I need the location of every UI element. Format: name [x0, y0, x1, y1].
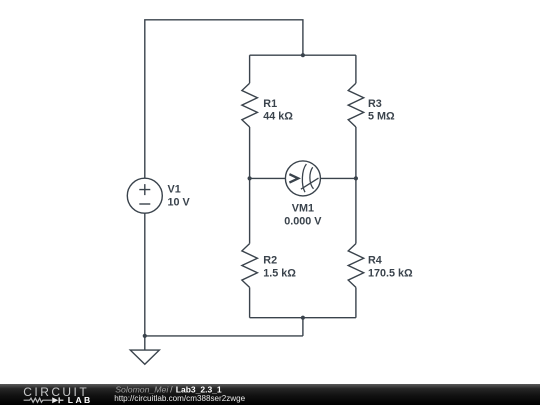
wire bridge top rail [250, 54, 356, 56]
resistor R4 [348, 244, 364, 288]
svg-text:/: / [170, 385, 173, 395]
wire R3 top stub [355, 55, 357, 83]
VM1 pointer chevron [289, 174, 298, 182]
svg-text:44 kΩ: 44 kΩ [263, 111, 293, 123]
node B right mid [354, 176, 358, 180]
VM1 needle [301, 178, 319, 189]
wire bottom return to V1 [145, 335, 303, 337]
svg-text:Solomon_Mei: Solomon_Mei [115, 385, 169, 395]
svg-text:R2: R2 [263, 255, 277, 267]
wire R4 bottom to bridge bottom [355, 287, 357, 317]
svg-text:0.000 V: 0.000 V [284, 216, 322, 228]
voltage source V1 circle [127, 178, 162, 213]
voltmeter VM1 circle [285, 161, 320, 196]
wire R1 top stub [249, 55, 251, 83]
wire R1 bottom through node A to R2 top [249, 127, 251, 244]
ground stub [144, 336, 146, 350]
wire V1 bottom [144, 213, 146, 336]
V1 plus sign [139, 184, 150, 195]
wire bottom tap stub [302, 318, 304, 336]
svg-text:R4: R4 [368, 255, 382, 267]
wire bridge bottom rail [250, 317, 356, 319]
wire VM1 right lead [320, 177, 356, 179]
node junction bridge top [301, 53, 305, 57]
logo resistor zigzag and diode [24, 398, 52, 402]
resistor R2 [242, 244, 258, 288]
ground symbol [130, 350, 159, 364]
wire R2 bottom to bridge bottom [249, 287, 251, 317]
svg-text:VM1: VM1 [292, 203, 314, 215]
svg-text:http://circuitlab.com/cm388ser: http://circuitlab.com/cm388ser2zwge [114, 394, 245, 403]
wire R3 bottom through node B to R4 top [355, 127, 357, 244]
svg-text:1.5 kΩ: 1.5 kΩ [263, 267, 296, 279]
resistor R1 [242, 83, 258, 127]
VM1 scale arc 1 [302, 164, 306, 192]
wire VM1 left lead [250, 177, 286, 179]
VM1 scale arc 2 [310, 167, 314, 189]
svg-text:5 MΩ: 5 MΩ [368, 111, 395, 123]
svg-text:170.5 kΩ: 170.5 kΩ [368, 267, 413, 279]
svg-text:R3: R3 [368, 98, 382, 110]
svg-text:V1: V1 [168, 184, 181, 196]
svg-text:R1: R1 [263, 98, 277, 110]
node A left mid [248, 176, 252, 180]
V1 minus sign [139, 203, 150, 205]
wire V1 top to top-left corner to bridge feed [145, 20, 303, 179]
svg-text:Lab3_2.3_1: Lab3_2.3_1 [176, 385, 222, 395]
footer bar [0, 384, 540, 405]
svg-text:10 V: 10 V [168, 197, 191, 209]
node junction ground [143, 334, 147, 338]
svg-text:LAB: LAB [68, 395, 93, 405]
resistor R3 [348, 83, 364, 127]
node junction bridge bottom [301, 316, 305, 320]
